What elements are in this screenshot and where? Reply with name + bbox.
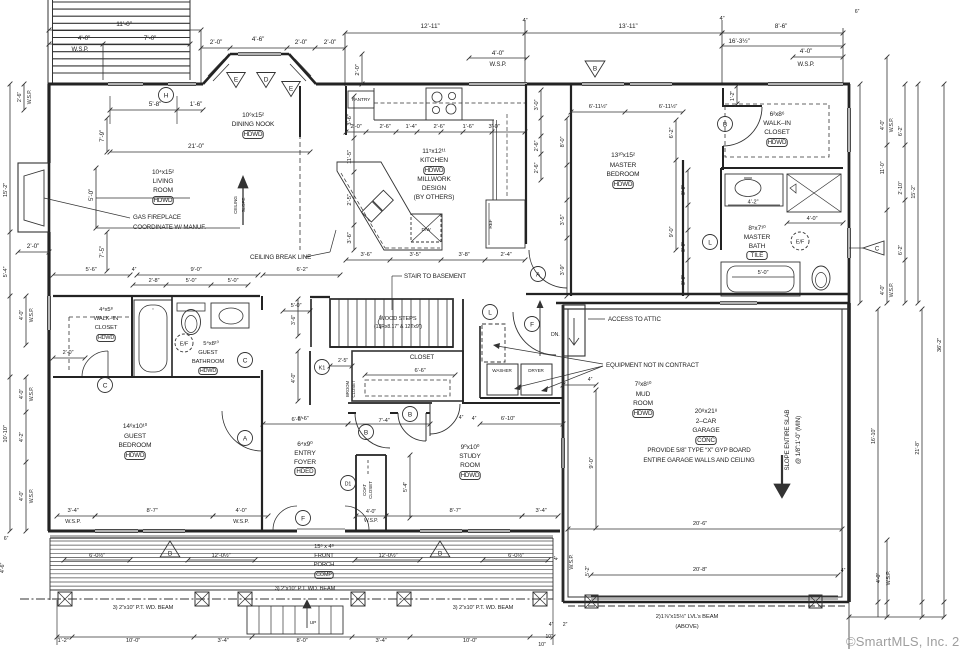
right dim chain 2 labels [886,57,888,303]
svg-text:3’-6”: 3’-6” [347,114,353,125]
triangle marker C outside right wall [863,241,884,255]
svg-text:HDWD: HDWD [614,181,633,188]
bottom interior dim row right [386,515,522,517]
svg-text:2’-5”: 2’-5” [338,358,348,364]
svg-text:5’-8”: 5’-8” [149,101,162,108]
stair down arrow [539,305,541,356]
svg-text:W.S.P.: W.S.P. [490,62,507,68]
svg-text:W.S.P.: W.S.P. [233,519,249,525]
bay window glazing top [238,51,281,53]
master tub [721,262,800,296]
svg-text:FRONT: FRONT [314,553,334,559]
svg-text:7’-9”: 7’-9” [99,130,106,142]
top dimension 12-11 [345,32,525,34]
svg-text:W.S.P.: W.S.P. [29,489,35,504]
circle marker K1 [315,360,330,375]
dimension 7-9 vertical [106,118,108,152]
svg-text:6’-10”: 6’-10” [501,416,515,422]
svg-text:TILE: TILE [751,252,764,259]
svg-text:4’-0”: 4’-0” [800,48,813,55]
svg-text:1’-2”: 1’-2” [57,638,68,644]
closet under stairs walls [330,346,453,348]
svg-text:HDWD: HDWD [461,472,480,479]
svg-text:DN.: DN. [551,332,560,338]
svg-text:3’-0”: 3’-0” [534,99,540,110]
kitchen dimension row 2-0 2-6 1-4 2-6 1-6 [346,131,525,133]
svg-text:2’-6”: 2’-6” [379,124,390,130]
svg-text:10’-0”: 10’-0” [463,638,477,644]
svg-text:13¹⁰x15²: 13¹⁰x15² [611,151,636,159]
svg-text:3’-4”: 3’-4” [535,508,546,514]
circle marker L hall [483,305,498,320]
door opening on right wall master bath [846,228,848,258]
right dim chain 3 [904,84,906,303]
svg-text:WALK–IN: WALK–IN [763,120,791,127]
svg-text:6’-2”: 6’-2” [898,126,904,137]
svg-text:8’-7”: 8’-7” [146,508,157,514]
svg-text:4’-0”: 4’-0” [291,373,297,383]
svg-text:B: B [593,66,597,73]
garage width dim 20-8 [591,574,838,576]
svg-text:3’-4”: 3’-4” [375,638,386,644]
svg-text:PORCH: PORCH [314,562,334,568]
svg-text:GUEST: GUEST [198,350,218,356]
kitchen right wall [525,84,527,244]
svg-text:4”: 4” [588,377,593,383]
svg-text:ROOM: ROOM [460,462,480,469]
svg-text:E/F: E/F [796,240,805,246]
svg-text:5⁴x8¹⁰: 5⁴x8¹⁰ [203,340,219,347]
svg-text:F: F [530,321,534,328]
closet inner dashed rect [365,380,450,396]
svg-text:4’-6”: 4’-6” [252,36,265,43]
svg-text:COMP: COMP [316,572,332,578]
front door arc 2 [345,506,369,530]
svg-text:HDWD: HDWD [244,131,263,138]
svg-text:9⁰x10⁰: 9⁰x10⁰ [461,443,480,451]
svg-text:4’-0”: 4’-0” [78,35,91,42]
svg-text:16’-3½”: 16’-3½” [728,37,749,45]
window above kitchen [469,81,527,83]
svg-text:6’-6”: 6’-6” [291,417,302,423]
kitchen upper counter [373,88,375,120]
svg-text:10’-10”: 10’-10” [3,425,9,443]
svg-text:3’-5”: 3’-5” [409,252,420,258]
svg-text:KITCHEN: KITCHEN [420,157,448,164]
svg-text:8’-6”: 8’-6” [775,23,788,30]
svg-text:3’-0”: 3’-0” [488,124,499,130]
garage width dim 20-6 [568,528,842,530]
master closet door arc [723,107,762,146]
garage door header lines [591,595,838,597]
svg-text:4’-2”: 4’-2” [748,200,759,206]
top-right window dimension 4-0 W.S.P. [793,56,843,58]
svg-text:5’-0”: 5’-0” [758,270,769,276]
svg-text:DESIGN: DESIGN [422,185,447,192]
svg-text:BEDROOM: BEDROOM [607,171,640,178]
dimension 7-5 vertical [106,232,108,271]
master closet door leaf wall [722,146,724,170]
svg-text:4”: 4” [554,555,560,560]
svg-text:2–CAR: 2–CAR [696,418,717,425]
left dim chain middle window [25,296,27,345]
svg-text:2’-6”: 2’-6” [433,124,444,130]
circle marker F hall [525,317,540,332]
svg-text:4⁴x5⁸: 4⁴x5⁸ [99,306,113,313]
svg-text:WOOD STEPS: WOOD STEPS [380,316,417,322]
dining interior dimension 5-8 / 1-6 [110,109,203,111]
svg-text:HDED: HDED [296,468,314,475]
top dimension 16-3half [722,45,843,47]
deck dimension 4-0 / 7-0 W.S.P. [49,43,190,45]
svg-text:13’-11”: 13’-11” [618,23,637,30]
guest bedroom door arc [222,411,262,451]
svg-text:9’-0”: 9’-0” [589,457,595,468]
svg-text:4’-0”: 4’-0” [807,216,818,222]
svg-text:4”: 4” [841,568,846,574]
svg-text:CONC: CONC [697,437,715,444]
svg-text:W.S.P.: W.S.P. [29,387,35,402]
svg-text:SLOPE: SLOPE [241,198,246,213]
svg-text:2’-0”: 2’-0” [27,243,40,250]
triangle marker E bay right [282,82,301,97]
svg-text:MUD: MUD [636,391,651,398]
svg-text:7’-0”: 7’-0” [144,35,157,42]
svg-text:10’-0”: 10’-0” [126,638,140,644]
svg-text:3) 2”x10” P.T. WD. BEAM: 3) 2”x10” P.T. WD. BEAM [113,605,174,611]
front steps [247,606,343,634]
kitchen counter dashed back line [374,102,525,104]
svg-text:12’-11”: 12’-11” [420,23,439,30]
circle marker H [159,88,174,103]
slope arrow [781,455,783,487]
svg-text:6⁴x9⁰: 6⁴x9⁰ [297,440,313,448]
triangle marker B porch left [160,541,180,557]
svg-text:DINING NOOK: DINING NOOK [232,121,275,128]
svg-text:CLOSET: CLOSET [410,354,434,361]
svg-text:4’-6”: 4’-6” [0,563,6,574]
dining/kitchen partial wall [299,86,301,137]
bottom dimension row [57,636,553,638]
hall lower wall segments [348,412,356,414]
garage divide wall opening [720,300,757,302]
porch deck boards hatch [50,540,553,542]
laundry dim 6-10 [480,423,563,425]
svg-text:5’-0”: 5’-0” [291,303,302,309]
circle marker B hall door 2 [403,407,418,422]
triangle marker E bay left [227,73,246,88]
refrigerator [486,200,525,248]
top dimension 13-11 [525,32,722,34]
hall railing arc at stairs [513,312,556,355]
guest toilet [177,303,205,311]
bottom dim verticals [56,600,58,645]
gas fireplace chase [18,163,49,232]
svg-text:WALK–IN: WALK–IN [94,316,119,322]
svg-text:▪: ▪ [152,307,153,311]
svg-text:2’-6”: 2’-6” [17,92,23,103]
stair dimension 5-0 [283,310,310,312]
right dim chain full height 36-2 [943,84,945,602]
washer box [487,364,518,395]
svg-text:W.S.P.: W.S.P. [889,283,895,298]
gas fireplace firebox [24,170,44,226]
svg-text:11’-5”: 11’-5” [347,150,353,164]
svg-text:6”: 6” [855,9,860,15]
svg-text:7’-4”: 7’-4” [378,418,389,424]
svg-text:6’-11½”: 6’-11½” [659,103,678,110]
circle marker D1 [341,476,356,491]
svg-text:3) 2”x10” P.T. WD. BEAM: 3) 2”x10” P.T. WD. BEAM [275,586,336,592]
svg-text:DRYER: DRYER [528,368,544,373]
island double sink [361,190,393,222]
top-right walk-in closet window [768,81,843,83]
right exterior wall [848,84,851,303]
study windows on bottom wall [420,528,462,530]
top dimension row: 2-0, 4-6, 2-0, 2-0 [201,47,345,49]
svg-text:F: F [301,515,305,522]
svg-text:10”: 10” [538,642,546,648]
svg-text:4’-0”: 4’-0” [19,310,25,321]
garage door posts [585,595,598,608]
living room bottom wall [53,295,260,297]
svg-text:W.S.P.: W.S.P. [29,308,35,323]
svg-text:CLOSET: CLOSET [368,481,373,499]
circle marker B master [718,117,733,132]
svg-text:MILLWORK: MILLWORK [417,176,451,183]
guest bedroom right wall [261,296,263,310]
bath/closet divide wall [131,296,133,377]
triangle marker B porch right [430,541,450,557]
svg-text:12’-0½”: 12’-0½” [379,552,398,559]
svg-text:8⁵x7¹⁰: 8⁵x7¹⁰ [748,224,766,232]
svg-text:5’-6”: 5’-6” [85,267,96,273]
svg-text:8’-0”: 8’-0” [560,136,566,147]
circle marker F foyer [296,511,311,526]
garage dim 4in small [563,384,596,386]
svg-text:W.S.P.: W.S.P. [364,518,378,524]
svg-text:PANTRY: PANTRY [352,97,371,103]
svg-text:10⁴x15²: 10⁴x15² [152,169,175,176]
svg-text:H: H [164,92,169,99]
svg-text:W.S.P.: W.S.P. [72,47,89,53]
porch bottom edge [50,589,553,591]
svg-text:14⁶x10¹⁰: 14⁶x10¹⁰ [123,422,148,430]
laundry wall [480,397,563,399]
master suite hall dim chain [675,120,677,250]
garage bottom wall [563,601,849,604]
svg-text:36’-2”: 36’-2” [937,338,943,352]
svg-text:4”: 4” [549,622,554,628]
svg-text:4’-0”: 4’-0” [366,509,376,515]
study top wall [462,402,560,404]
right bottom dim ticks [849,616,944,618]
svg-text:4”: 4” [472,416,477,422]
door A arc to master hall [529,250,567,288]
svg-text:HDWD: HDWD [768,139,787,146]
kitchen island inner dashed line [341,173,385,248]
svg-text:BEDROOM: BEDROOM [119,442,152,449]
hall door arc 1 [355,413,390,448]
vertical ties from top dims to wall [200,30,202,84]
stair treads [338,299,340,347]
cooktop [426,88,462,120]
svg-text:10”: 10” [546,634,553,640]
svg-text:3’-0”: 3’-0” [681,185,687,195]
porch posts [58,592,72,606]
bay window glazing right [295,59,311,76]
svg-text:WASHER: WASHER [492,368,512,373]
tub right wall [171,296,173,377]
master hall bottom wall [526,293,571,295]
circle marker C closet [98,378,113,393]
garage inner outline [568,309,842,597]
svg-text:CEILING: CEILING [233,196,238,214]
svg-text:9’-0”: 9’-0” [190,267,201,273]
svg-text:W.S.P.: W.S.P. [889,118,895,133]
walk-in closet small dim 1-2 [736,86,738,104]
svg-text:2’-5”: 2’-5” [347,194,353,205]
svg-text:GAS FIREPLACE: GAS FIREPLACE [133,214,181,221]
top exterior wall right of bay [316,83,850,86]
svg-text:20⁸x21⁸: 20⁸x21⁸ [695,408,718,415]
bay window glazing left [208,59,224,76]
garage top wall inner line [562,305,564,602]
guest bath bottom wall [53,376,260,378]
svg-text:4’-0”: 4’-0” [19,491,25,502]
svg-text:6’-11½”: 6’-11½” [589,103,608,110]
svg-text:C: C [103,382,108,389]
svg-text:4’-0”: 4’-0” [880,285,886,296]
coat closet rod dashed [367,460,369,476]
study door arc [430,404,460,434]
svg-text:4”: 4” [459,415,464,421]
svg-text:HDWD: HDWD [200,368,217,374]
master toilet [812,266,830,290]
porch beam dash-dot line [20,598,553,600]
bay window wall top flat [230,53,289,56]
svg-text:5’-0”: 5’-0” [186,278,197,284]
future equipment dashed box [482,324,505,362]
svg-text:4’-0”: 4’-0” [19,389,25,400]
svg-text:2’-0”: 2’-0” [295,39,308,46]
kitchen upper cabinet dashed over fridge [506,114,508,198]
svg-text:HDWD: HDWD [126,452,145,459]
svg-text:CEILING BREAK LINE: CEILING BREAK LINE [250,254,311,261]
closet door arc [82,351,108,377]
svg-text:B: B [168,551,172,558]
dryer box [521,364,552,395]
right dim chain 4 [917,84,919,303]
svg-text:REF: REF [488,219,494,228]
svg-text:STUDY: STUDY [459,453,481,460]
svg-text:2)1⅞”x15½” LVL’s BEAM: 2)1⅞”x15½” LVL’s BEAM [656,613,719,620]
laundry left wall [479,326,481,398]
svg-text:21’-0”: 21’-0” [188,143,204,150]
svg-text:4’-0”: 4’-0” [235,508,246,514]
svg-text:BROOM: BROOM [345,381,350,398]
svg-text:3’-8”: 3’-8” [458,252,469,258]
svg-text:6’-2”: 6’-2” [296,267,307,273]
svg-text:20’-6”: 20’-6” [693,521,707,527]
svg-text:COAT: COAT [362,484,367,496]
left dim chain far [9,84,11,531]
svg-text:K1: K1 [319,365,326,371]
svg-text:3’-5”: 3’-5” [560,214,566,225]
svg-text:©SmartMLS, Inc. 20: ©SmartMLS, Inc. 20 [846,634,960,649]
dimension column between dining and kitchen [353,96,355,250]
svg-text:3’-0”: 3’-0” [681,242,687,252]
svg-text:21’-8”: 21’-8” [915,441,921,454]
right dim chain garage 16-10 21-8 [877,309,879,602]
svg-text:1’-6”: 1’-6” [190,101,203,108]
dishwasher [411,214,441,242]
svg-text:ACCESS TO ATTIC: ACCESS TO ATTIC [608,316,661,323]
ceiling slope arrow [242,182,244,225]
stair dim 3-6 vertical [297,299,299,336]
guest sink counter [211,303,249,328]
garage dim 9-0 vertical [595,390,597,528]
svg-text:MASTER: MASTER [610,162,637,169]
svg-text:3’-6”: 3’-6” [291,315,297,325]
svg-text:11⁵x12¹¹: 11⁵x12¹¹ [422,148,446,155]
svg-text:EQUIPMENT NOT IN CONTRACT: EQUIPMENT NOT IN CONTRACT [606,362,699,369]
svg-text:2’-4”: 2’-4” [500,252,511,258]
svg-text:BATH: BATH [749,243,766,250]
master bath top wall [721,167,843,169]
circle marker C guest bath [238,353,253,368]
ceiling break dashed line [299,110,301,250]
svg-text:LIVING: LIVING [153,178,174,185]
svg-text:15’-2”: 15’-2” [911,185,917,198]
svg-text:HDWD: HDWD [98,335,115,341]
svg-text:ENTIRE GARAGE WALLS AND CEILIN: ENTIRE GARAGE WALLS AND CEILING [643,457,754,464]
svg-text:4’-0”: 4’-0” [876,573,882,584]
stairwell enclosure [330,299,453,347]
master bath door wall stub [720,168,722,250]
master bath vanity [725,174,783,206]
master bedroom windows on top wall [582,81,624,83]
svg-text:W.S.P.: W.S.P. [886,571,892,586]
master bedroom interior dim 6-11half x2 [571,111,683,113]
porch right edge [552,538,554,600]
master suite bottom wall [571,293,849,295]
svg-text:12’-0½”: 12’-0½” [212,552,231,559]
deck dimension 11-0 [49,29,201,31]
svg-text:3’-6”: 3’-6” [360,252,371,258]
svg-text:5’-0”: 5’-0” [228,278,239,284]
svg-text:6’-6”: 6’-6” [414,368,425,374]
svg-text:20’-8”: 20’-8” [693,567,707,573]
svg-text:2’-6”: 2’-6” [534,162,540,173]
master closet door wall stub top [722,88,724,107]
garage / master suite divide wall [556,302,849,305]
svg-text:3’-0”: 3’-0” [681,275,687,285]
triangle marker B top wall [585,61,605,77]
svg-text:ROOM: ROOM [633,400,653,407]
svg-text:B: B [408,411,412,418]
shower dim 4-0 [787,222,843,224]
stair left inner wall [310,299,312,347]
study dim 5-4 vertical [409,455,411,518]
svg-text:5’-4”: 5’-4” [3,266,9,277]
svg-text:UP: UP [310,620,316,626]
svg-text:W.S.P.: W.S.P. [798,62,815,68]
svg-text:2’-0”: 2’-0” [210,39,223,46]
svg-text:10⁶x15²: 10⁶x15² [242,112,265,119]
pantry wall [345,86,347,135]
kitchen window dimension 4-0 W.S.P. [469,57,527,59]
